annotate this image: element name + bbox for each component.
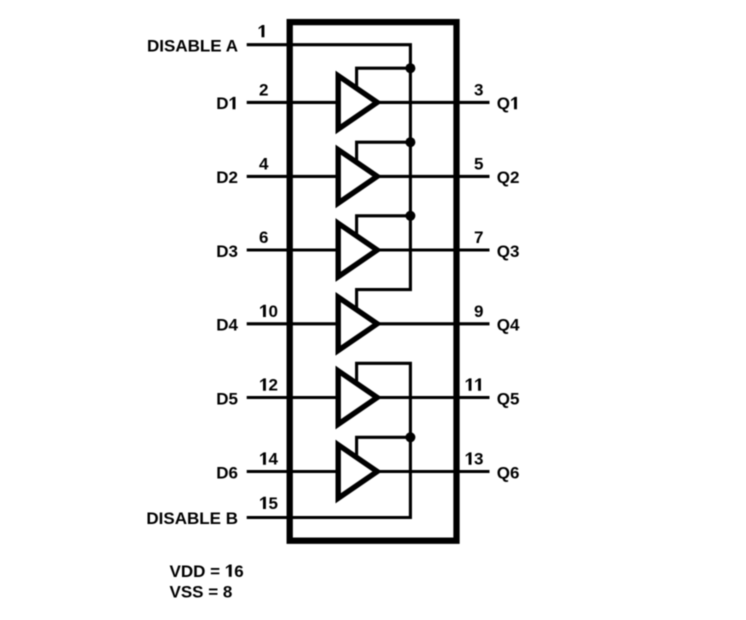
svg-text:5: 5 — [268, 494, 277, 513]
svg-text:2: 2 — [268, 376, 277, 395]
svg-text:Q6: Q6 — [497, 463, 520, 482]
svg-text:D: D — [216, 94, 228, 113]
svg-text:0: 0 — [268, 302, 277, 321]
svg-text:D4: D4 — [216, 316, 238, 335]
svg-text:2: 2 — [259, 81, 268, 100]
svg-text:DISABLE B: DISABLE B — [146, 509, 238, 528]
svg-text:VSS = 8: VSS = 8 — [170, 582, 233, 601]
svg-text:D2: D2 — [216, 168, 238, 187]
svg-text:D5: D5 — [216, 389, 238, 408]
svg-text:D3: D3 — [216, 242, 238, 261]
svg-text:7: 7 — [474, 228, 483, 247]
svg-text:D6: D6 — [216, 463, 238, 482]
svg-text:4: 4 — [268, 450, 278, 469]
svg-text:Q5: Q5 — [497, 389, 520, 408]
svg-text:Q4: Q4 — [497, 316, 520, 335]
svg-text:9: 9 — [474, 302, 483, 321]
svg-text:3: 3 — [474, 81, 483, 100]
svg-text:Q3: Q3 — [497, 242, 520, 261]
svg-text:Q2: Q2 — [497, 168, 520, 187]
svg-text:6: 6 — [259, 228, 268, 247]
svg-text:Q: Q — [497, 94, 510, 113]
svg-text:4: 4 — [259, 155, 269, 174]
svg-text:VDD =: VDD = — [170, 562, 225, 581]
svg-text:DISABLE A: DISABLE A — [147, 37, 238, 56]
svg-text:6: 6 — [234, 562, 243, 581]
svg-text:3: 3 — [474, 450, 483, 469]
svg-text:5: 5 — [474, 155, 483, 174]
